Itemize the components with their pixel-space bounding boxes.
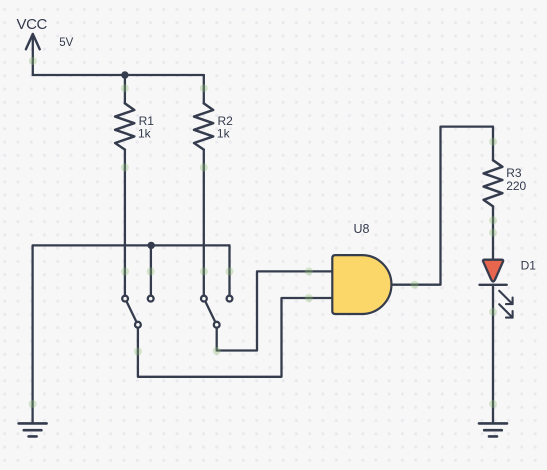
- wire: S1 to U8 lower input: [138, 298, 309, 377]
- svg-text:5V: 5V: [59, 37, 73, 49]
- wire: R3 top lead: [492, 127, 494, 161]
- wire: S2 to U8 upper input: [217, 271, 309, 350]
- pin marker: S2 terminal 1: [200, 268, 208, 276]
- svg-text:1k: 1k: [217, 126, 231, 140]
- pin marker: R3 pin 1: [489, 138, 497, 146]
- switch S2: [201, 296, 232, 351]
- pin marker: D1 anode: [489, 229, 497, 237]
- wire: R1 bottom to switch terminal: [124, 150, 126, 296]
- svg-text:220: 220: [506, 179, 526, 193]
- wire: R1 top lead drop: [124, 75, 126, 103]
- pin marker: U8 output: [411, 281, 419, 289]
- svg-text:R3: R3: [506, 166, 522, 180]
- pin marker: S1 terminal 2: [147, 268, 155, 276]
- pin marker: U8 input B: [305, 294, 313, 302]
- resistor R3: [484, 160, 503, 206]
- switch S1: [122, 296, 153, 352]
- wire: bus stub to S1 right terminal: [150, 245, 152, 295]
- pin marker: S1 terminal 1: [121, 268, 129, 276]
- pin marker: VCC pin: [29, 57, 37, 65]
- wire: R2 bottom to switch terminal: [203, 150, 205, 296]
- resistor R1: [115, 103, 134, 149]
- pin marker: left ground pin: [29, 400, 37, 408]
- LED D1: [480, 260, 513, 318]
- svg-text:U8: U8: [354, 222, 370, 236]
- pin marker: R1 pin 2: [121, 164, 129, 172]
- wire: R3 bottom to LED anode: [492, 206, 494, 259]
- svg-text:VCC: VCC: [17, 16, 48, 33]
- AND gate U8: [309, 255, 415, 314]
- wire: R2 top lead drop: [203, 75, 205, 103]
- svg-text:1k: 1k: [138, 126, 152, 140]
- pin marker: right ground pin: [489, 400, 497, 408]
- wire: LED cathode to ground: [492, 285, 494, 424]
- ground (left): [19, 423, 47, 436]
- pin marker: R2 pin 2: [200, 164, 208, 172]
- pin marker: S2 terminal 2: [226, 268, 234, 276]
- svg-text:D1: D1: [521, 258, 537, 272]
- pin marker: D1 cathode: [489, 308, 497, 316]
- pin marker: S1 common: [134, 348, 142, 356]
- power VCC symbol: [26, 34, 40, 75]
- junction node at VCC rail / R1: [121, 71, 128, 78]
- wire: U8 output up and over to R3: [415, 127, 493, 285]
- resistor R2: [194, 103, 213, 149]
- wire: bus end to S2 right terminal: [228, 245, 230, 295]
- pin marker: S2 common: [213, 347, 221, 355]
- pin marker: U8 input A: [305, 267, 313, 275]
- wire: VCC rail to R1/R2 tops: [33, 74, 204, 76]
- pin marker: R1 pin 1: [121, 84, 129, 92]
- pin marker: R3 pin 2: [489, 216, 497, 224]
- ground (right): [479, 423, 507, 436]
- pin marker: R2 pin 1: [200, 84, 208, 92]
- junction node at bus / S1 stub: [148, 242, 155, 249]
- wire: node bus to ground leg: [33, 245, 230, 423]
